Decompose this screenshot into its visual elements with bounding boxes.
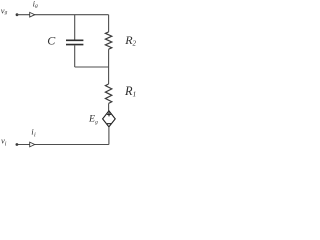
svg-text:Eg: Eg	[88, 113, 98, 125]
wire right vertical top lead	[108, 15, 110, 32]
dependent source E_g (diamond)	[103, 111, 116, 127]
svg-text:ig: ig	[33, 0, 38, 9]
svg-text:vi: vi	[1, 135, 7, 147]
wire bottom	[17, 144, 109, 146]
wire top	[17, 14, 109, 16]
minus sign	[107, 123, 111, 125]
svg-text:C: C	[47, 34, 56, 48]
svg-text:R1: R1	[124, 84, 136, 99]
node top-left	[16, 13, 19, 16]
capacitor C plates	[66, 39, 83, 41]
wire middle vertical	[108, 49, 110, 84]
wire lead from source to bottom rail	[108, 127, 110, 145]
current arrow i_i	[30, 142, 35, 147]
wire capacitor branch upper lead	[74, 15, 76, 40]
resistor R2	[105, 32, 111, 49]
svg-text:vg: vg	[1, 6, 8, 16]
node bottom-left	[16, 143, 19, 146]
svg-text:R2: R2	[124, 33, 136, 48]
resistor R1	[105, 84, 111, 103]
current arrow i_g	[30, 12, 35, 17]
plus sign	[107, 112, 111, 116]
wire lead to source	[108, 103, 110, 111]
svg-text:ii: ii	[31, 127, 36, 139]
wire capacitor branch lower lead	[74, 45, 76, 67]
wire bottom rail of parallel section	[75, 66, 109, 68]
